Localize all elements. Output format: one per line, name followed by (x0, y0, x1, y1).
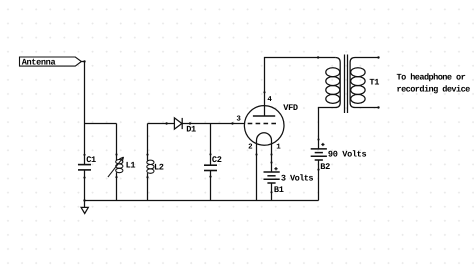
wire tube pin1 to B1 (271, 155, 273, 173)
svg-text:VFD: VFD (283, 103, 298, 113)
inductor L2 (146, 154, 163, 179)
wire C1 top (84, 124, 86, 165)
svg-text:C2: C2 (212, 155, 222, 165)
label to headphone (397, 72, 471, 94)
svg-text:1: 1 (276, 144, 281, 152)
node ground junction (83, 199, 85, 201)
wire L2 bottom (147, 173, 149, 200)
wire C1 bottom (84, 170, 86, 201)
svg-text:C1: C1 (86, 155, 96, 165)
wire antenna stub (81, 61, 84, 63)
battery B1 (264, 161, 314, 195)
node tube pin 3 (231, 122, 233, 124)
capacitor C2 (204, 153, 222, 177)
capacitor C1 (78, 154, 96, 179)
wire L2 top (147, 124, 149, 161)
svg-text:L1: L1 (126, 161, 136, 171)
node D1 anode (165, 122, 167, 124)
svg-text:2: 2 (248, 143, 253, 152)
node antenna junction (83, 60, 85, 62)
battery B2 (311, 138, 367, 172)
vacuum tube U1 VFD (233, 91, 298, 155)
svg-text:B2: B2 (320, 162, 330, 172)
diode D1 (167, 118, 196, 134)
ground (81, 201, 88, 214)
transformer T1 (319, 55, 380, 140)
svg-text:D1: D1 (186, 124, 196, 134)
wire D1 to tube grid (190, 123, 233, 125)
wire L1 bottom (116, 173, 118, 201)
svg-text:To headphone or: To headphone or (397, 72, 466, 82)
wire B2 to rail (318, 160, 320, 201)
svg-text:recording device: recording device (397, 84, 471, 94)
wire segment L2 to D1 (148, 123, 167, 125)
node top wire joint (317, 56, 319, 58)
wire tube pin2 to rail (256, 155, 258, 201)
inductor L1 (variable) (108, 153, 135, 178)
wire C2 top (210, 124, 212, 165)
svg-text:4: 4 (267, 96, 272, 104)
svg-text:L2: L2 (154, 163, 164, 173)
wire bottom rail (85, 200, 319, 202)
wire C2 bottom (210, 171, 212, 201)
wire top segment C1-L1 (85, 123, 117, 125)
svg-text:T1: T1 (369, 78, 379, 88)
antenna flag (20, 57, 82, 68)
svg-text:B1: B1 (274, 185, 284, 195)
wire B1 to rail (271, 183, 273, 201)
node D1 cathode (189, 122, 191, 124)
wire L1 top (116, 124, 118, 161)
svg-text:3 Volts: 3 Volts (281, 173, 313, 183)
svg-text:Antenna: Antenna (22, 58, 56, 68)
svg-text:90 Volts: 90 Volts (328, 150, 367, 160)
svg-text:3: 3 (236, 115, 241, 124)
wire antenna vertical (84, 62, 86, 124)
wire plate to transformer primary (265, 58, 336, 93)
